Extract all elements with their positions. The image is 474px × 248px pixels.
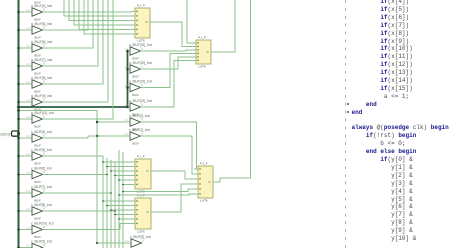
svg-text:O: O <box>141 118 143 121</box>
svg-text:IBUF: IBUF <box>34 18 41 22</box>
svg-text:IBUF: IBUF <box>34 144 41 148</box>
svg-text:O: O <box>141 65 143 68</box>
wire net B1 output to node 97,136 <box>43 136 98 138</box>
wire net C5 output to U5 pin I0 <box>141 122 199 169</box>
junction bus tap 1 <box>17 29 20 32</box>
buffer x_IBUF[4]_inst <box>27 130 53 148</box>
buffer x_IBUF[6]_inst <box>27 167 53 185</box>
svg-text:O: O <box>43 171 45 174</box>
svg-text:x_IBUF[3]_inst: x_IBUF[3]_inst <box>31 240 52 244</box>
svg-text:x_IBUF[5]_inst: x_IBUF[5]_inst <box>31 148 52 152</box>
junction bus tap y=110.5 <box>17 109 20 112</box>
LUT U1 (a_i_4) <box>131 3 154 42</box>
junction river-U4 I3 <box>114 214 116 216</box>
svg-text:O: O <box>142 239 144 242</box>
wire net A7 output up to top edge <box>43 0 114 119</box>
svg-text:x_IBUF[10]_inst: x_IBUF[10]_inst <box>31 222 54 226</box>
svg-text:O: O <box>43 62 45 65</box>
svg-text:x_IBUF[0]_inst: x_IBUF[0]_inst <box>129 114 150 118</box>
LUT U3 (b_i_2) <box>131 154 155 193</box>
svg-text:O: O <box>43 134 45 137</box>
svg-text:O: O <box>43 189 45 192</box>
wire river vertical 5 x=123 <box>122 152 124 248</box>
buffer x_IBUF[0]_inst <box>125 114 151 132</box>
svg-text:O: O <box>141 103 143 106</box>
wire river vertical 2 x=111 <box>110 160 112 248</box>
buffer x_IBUF[7]_inst <box>27 185 53 203</box>
junction bus tap 6 <box>17 118 20 121</box>
wire net A6 output up to top edge <box>43 0 109 102</box>
junction bus tap 9 <box>17 173 20 176</box>
wire bus tap stub 1 <box>19 29 33 31</box>
wire river to U3 pin I4 <box>119 179 131 181</box>
junction node 97,136 <box>96 135 98 137</box>
wire river to U3 pin I1 <box>107 166 131 168</box>
buffer x_IBUF[5]_inst <box>27 148 53 166</box>
wire net C3 output to U2 pin I3 <box>141 54 193 88</box>
buffer x_IBUF[3]_inst <box>27 240 53 248</box>
wire bus tap stub 9 <box>19 174 33 176</box>
svg-text:LUT6: LUT6 <box>198 65 206 69</box>
buffer a_IBUF[20]_inst <box>125 61 152 79</box>
junction thick vertical tap y=87.5 <box>126 86 129 89</box>
svg-text:LUT6: LUT6 <box>137 39 145 43</box>
wire net C2 output to U2 pin I4 <box>141 57 193 69</box>
wire net from top edge to U1 pin I2 <box>69 0 131 21</box>
wire net from bus y=110.5 down to buffer C7 input <box>19 111 132 244</box>
wire river to U3 pin I2 <box>111 170 131 172</box>
junction bus tap 0 <box>17 11 20 14</box>
svg-text:LUT6: LUT6 <box>200 199 208 203</box>
junction bus to thick horizontal <box>17 106 20 109</box>
svg-text:a_IBUF[4]_inst: a_IBUF[4]_inst <box>31 4 52 8</box>
wire river to U3 pin I0 <box>103 161 131 163</box>
wire bus tap stub 7 <box>19 137 33 139</box>
wire main vertical bus x net <box>18 0 20 248</box>
svg-text:IBUF: IBUF <box>34 162 41 166</box>
svg-text:a_IBUF[20]_inst: a_IBUF[20]_inst <box>129 61 152 65</box>
wire net A1 output to U1 pin I0 <box>43 11 132 13</box>
svg-text:b_i_2: b_i_2 <box>137 154 145 158</box>
wire net U2 output right and up to top edge <box>215 0 236 52</box>
wire net B6 output to U4 pin I5 <box>43 224 132 230</box>
wire river vertical 3 x=115 <box>114 162 116 248</box>
wire thick horizontal distribution net y=107 <box>19 106 128 108</box>
junction bus tap 10 <box>17 192 20 195</box>
wire thick-vertical tap stub y=51 <box>128 50 131 52</box>
svg-text:a_IBUF[7]_inst: a_IBUF[7]_inst <box>31 58 52 62</box>
buffer a_IBUF[7]_inst <box>27 58 53 76</box>
LUT U4 (b_i_3) <box>131 193 155 233</box>
wire river to U4 pin I3 <box>115 214 131 216</box>
junction bus tap 2 <box>17 47 20 50</box>
junction bus tap 7 <box>17 137 20 140</box>
wire net A3 output up to top edge <box>43 0 94 48</box>
buffer x_IBUF[1]_inst <box>125 128 151 146</box>
wire net to buffer C5 input <box>97 121 130 123</box>
buffer a_IBUF[6]_inst <box>27 40 53 58</box>
wire thick-vertical tap stub y=69 <box>128 68 131 70</box>
svg-text:O: O <box>43 226 45 229</box>
wire river vertical 1 x=107 <box>106 158 108 248</box>
svg-text:IBUF: IBUF <box>34 72 41 76</box>
buffer a_IBUF[23]_inst <box>125 99 152 117</box>
svg-text:O: O <box>43 152 45 155</box>
buffer x_IBUF[2]_inst <box>126 235 152 248</box>
wire net from top edge to U2 pin I0 <box>187 0 192 43</box>
buffer a_IBUF[5]_inst <box>27 22 53 40</box>
buffer x_IBUF[10]_inst <box>27 222 54 240</box>
wire net from top edge to U1 pin I4 <box>79 0 131 30</box>
svg-text:x_IBUF[6]_inst: x_IBUF[6]_inst <box>31 167 52 171</box>
junction thick vertical tap y=69 <box>126 68 129 71</box>
svg-text:IBUF: IBUF <box>34 125 41 129</box>
wire net A4 output up to top edge <box>43 0 99 66</box>
svg-text:O: O <box>43 244 45 247</box>
wire bus tap stub 10 <box>19 192 33 194</box>
junction bus tap 4 <box>17 83 20 86</box>
svg-text:IBUF: IBUF <box>34 90 41 94</box>
junction port on bus <box>17 132 20 135</box>
wire net B4 output to river x=111 <box>43 192 112 194</box>
junction river-U4 I2 <box>110 209 112 211</box>
wire bus tap stub 2 <box>19 47 33 49</box>
svg-text:x_IBUF[7]_inst: x_IBUF[7]_inst <box>31 185 52 189</box>
svg-text:a_i_2: a_i_2 <box>198 35 206 39</box>
buffer a_IBUF[22]_inst <box>125 80 152 98</box>
wire net B2 output to river x=103 <box>43 155 104 157</box>
junction river-U3 I3 <box>114 175 116 177</box>
svg-text:IBUF: IBUF <box>34 199 41 203</box>
svg-text:a_IBUF[8]_inst: a_IBUF[8]_inst <box>31 76 52 80</box>
wire net A2 output up to top edge <box>43 0 89 30</box>
wire net B3 output to river x=107 <box>43 174 108 176</box>
junction river-U3 I2 <box>110 170 112 172</box>
svg-text:b_i_1: b_i_1 <box>200 161 208 165</box>
wire river to U3 pin I5 <box>123 184 131 186</box>
wire net river x=119 to U5 pin I5 <box>119 194 194 195</box>
svg-text:O: O <box>43 8 45 11</box>
junction thick vertical tap y=51 <box>126 50 129 53</box>
svg-text:O: O <box>141 132 143 135</box>
svg-text:IBUF: IBUF <box>34 180 41 184</box>
wire bus tap stub 5 <box>19 101 33 103</box>
wire river vertical 0 x=103 <box>102 156 104 248</box>
junction thick vertical tap y=107 <box>126 106 129 109</box>
wire bus tap stub 12 <box>19 229 33 231</box>
wire river to U3 pin I3 <box>115 175 131 177</box>
wire net C6 output to U5 pin I1 <box>141 136 195 174</box>
junction river-U3 I4 <box>118 179 120 181</box>
svg-text:O: O <box>43 26 45 29</box>
wire river to U4 pin I0 <box>103 200 131 202</box>
LUT U5 (b_i_1) <box>194 161 217 202</box>
svg-text:IBUF: IBUF <box>132 75 139 79</box>
svg-text:O: O <box>43 207 45 210</box>
svg-text:IBUF: IBUF <box>132 142 139 146</box>
port x[15:0] (input pin symbol) <box>0 131 18 137</box>
junction river-U5 I5 <box>118 194 120 196</box>
wire river to U4 pin I1 <box>107 205 131 207</box>
junction river-U3 I5 <box>122 184 124 186</box>
svg-text:IBUF: IBUF <box>34 36 41 40</box>
svg-text:a_IBUF[22]_inst: a_IBUF[22]_inst <box>129 80 152 84</box>
svg-text:x_IBUF[8]_inst: x_IBUF[8]_inst <box>31 203 52 207</box>
LUT U2 (a_i_2) <box>192 35 215 68</box>
svg-text:a_IBUF[23]_inst: a_IBUF[23]_inst <box>129 99 152 103</box>
wire thick-vertical tap stub y=107 <box>128 106 131 108</box>
wire net A5 output up to top edge <box>43 0 104 84</box>
svg-text:O: O <box>43 80 45 83</box>
junction B5 on river <box>114 210 116 212</box>
junction river-U5 I4 <box>122 191 124 193</box>
wire bus tap stub 3 <box>19 65 33 67</box>
pane divider <box>345 0 346 248</box>
svg-text:LUT6: LUT6 <box>137 230 145 234</box>
svg-text:a_IBUF[6]_inst: a_IBUF[6]_inst <box>31 40 52 44</box>
wire bus tap stub 4 <box>19 83 33 85</box>
svg-text:O: O <box>43 44 45 47</box>
buffer a_IBUF[8]_inst <box>27 76 53 94</box>
junction river-U4 I4 <box>118 218 120 220</box>
junction river-U3 I1 <box>106 166 108 168</box>
svg-text:O: O <box>43 115 45 118</box>
buffer x_IBUF[8]_inst <box>27 203 53 221</box>
wire thick vertical distribution net x=127 <box>127 51 129 108</box>
junction bus tap 5 <box>17 101 20 104</box>
wire river to U4 pin I4 <box>119 218 131 220</box>
wire net branch to buffer C6 input <box>97 135 130 137</box>
buffer a_IBUF[9]_inst <box>27 94 53 112</box>
junction corner to C7 <box>96 242 98 244</box>
junction bus tap bottom partial <box>17 246 20 248</box>
svg-text:IBUF: IBUF <box>34 54 41 58</box>
junction B3 on river <box>106 174 108 176</box>
svg-text:IBUF: IBUF <box>132 57 139 61</box>
svg-text:a_IBUF[14]_inst: a_IBUF[14]_inst <box>31 111 54 115</box>
svg-text:a_i_4: a_i_4 <box>137 3 145 7</box>
svg-text:O: O <box>141 84 143 87</box>
svg-text:x[15:0]: x[15:0] <box>0 133 10 137</box>
wire thick-vertical tap stub y=87.5 <box>128 87 131 89</box>
wire net C4 output to U2 pin I5 <box>141 61 193 108</box>
wire net river x=123 to U5 pin I4 <box>123 189 194 192</box>
wire net U5 output right then up to top edge <box>217 0 251 182</box>
wire net C1 output to U2 pin I2 <box>141 50 193 51</box>
svg-text:IBUF: IBUF <box>132 93 139 97</box>
buffer a_IBUF[33]_inst <box>125 43 152 61</box>
svg-text:O: O <box>43 98 45 101</box>
svg-text:a_IBUF[33]_inst: a_IBUF[33]_inst <box>129 43 152 47</box>
wire river to U4 pin I2 <box>111 209 131 211</box>
junction bus tap 3 <box>17 65 20 68</box>
junction river-U4 I0 <box>102 200 104 202</box>
wire port to bus <box>18 133 20 135</box>
svg-text:IBUF: IBUF <box>34 235 41 239</box>
schematic pane <box>0 0 346 248</box>
wire net U4 output to U5 pin I3 <box>155 184 195 212</box>
wire river vertical 4 x=119 <box>118 150 120 248</box>
junction node 97,122 <box>96 121 98 123</box>
junction river-U3 I0 <box>102 161 104 163</box>
buffer a_IBUF[4]_inst <box>27 4 53 22</box>
junction bus tap 12 <box>17 228 20 231</box>
wire bus tap stub 6 <box>19 118 33 120</box>
svg-text:a_IBUF[5]_inst: a_IBUF[5]_inst <box>31 22 52 26</box>
wire net from top edge to U1 pin I3 <box>74 0 131 25</box>
buffer a_IBUF[14]_inst <box>27 111 54 129</box>
wire bus tap stub 0 <box>19 11 33 13</box>
junction river-U4 I1 <box>106 205 108 207</box>
wire bus tap stub bottom partial <box>19 247 33 248</box>
wire net U3 output to U5 pin I2 <box>155 171 195 179</box>
wire bus tap stub 8 <box>19 155 33 157</box>
svg-text:x_IBUF[1]_inst: x_IBUF[1]_inst <box>129 128 150 132</box>
svg-text:x_IBUF[4]_inst: x_IBUF[4]_inst <box>31 130 52 134</box>
junction B4 on river <box>110 192 112 194</box>
svg-text:O: O <box>141 47 143 50</box>
wire bus tap stub 11 <box>19 210 33 212</box>
wire net B5 output to river x=115 <box>43 210 116 212</box>
wire net from top edge to U1 pin I1 <box>64 0 131 16</box>
junction bus tap 11 <box>17 210 20 213</box>
svg-text:IBUF: IBUF <box>34 217 41 221</box>
junction bus tap 8 <box>17 155 20 158</box>
svg-text:x_IBUF[2]_inst: x_IBUF[2]_inst <box>130 235 151 239</box>
wire net U1 output to U2 pin I1 <box>150 22 192 47</box>
wire net from top edge to U1 pin I5 <box>84 0 131 34</box>
svg-text:a_IBUF[9]_inst: a_IBUF[9]_inst <box>31 94 52 98</box>
